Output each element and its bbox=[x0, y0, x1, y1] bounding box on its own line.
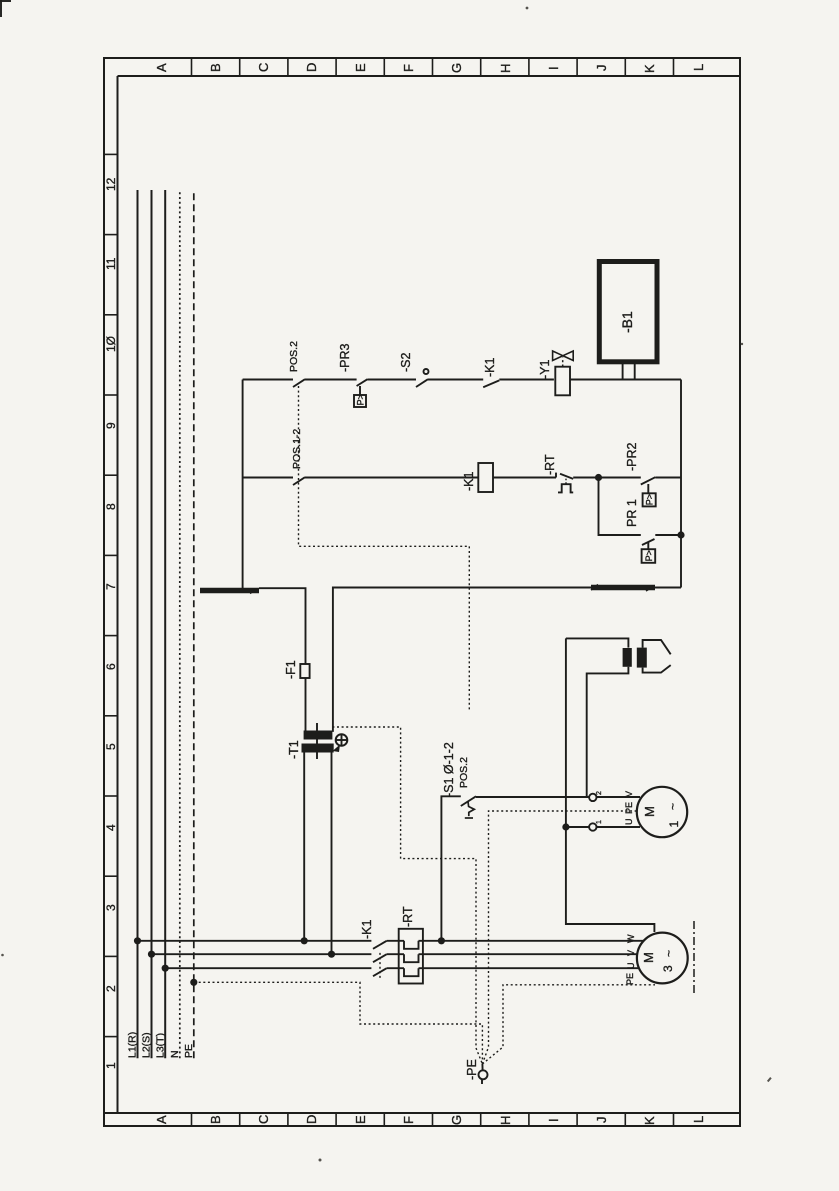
svg-text:J: J bbox=[594, 65, 609, 72]
svg-text:-B1: -B1 bbox=[619, 311, 635, 333]
wire T1 secondary lower bbox=[333, 588, 591, 732]
svg-text:U: U bbox=[626, 963, 636, 970]
wire phase2 mid bbox=[387, 953, 404, 955]
wire net U (to M2 star point) bbox=[566, 638, 655, 932]
svg-text:8: 8 bbox=[104, 503, 118, 510]
svg-text:-K1: -K1 bbox=[483, 358, 497, 378]
svg-text:~: ~ bbox=[666, 803, 680, 810]
motor M1 circle bbox=[637, 787, 687, 837]
svg-text:M: M bbox=[641, 952, 656, 963]
branch2 wire bbox=[573, 477, 641, 479]
svg-text:G: G bbox=[449, 1115, 464, 1125]
control top rail bbox=[242, 380, 244, 589]
contact POS.1-2 bbox=[293, 477, 305, 485]
PE tail tick bbox=[481, 1080, 483, 1085]
rail L3 bbox=[164, 190, 166, 1058]
svg-text:M: M bbox=[642, 806, 657, 817]
wire to S1 bbox=[441, 796, 460, 941]
svg-text:A: A bbox=[154, 63, 169, 72]
branch2 wire bottom bbox=[655, 477, 681, 479]
svg-text:I: I bbox=[546, 1118, 561, 1122]
rail L1 bbox=[137, 190, 139, 1058]
contactor K1 main contacts bbox=[373, 941, 387, 978]
contact K1 aux bbox=[483, 380, 499, 387]
node S1 tap bbox=[438, 937, 445, 944]
PR2 pressure box bbox=[643, 484, 656, 506]
svg-text:PE: PE bbox=[183, 1044, 195, 1058]
branch2 wire bbox=[493, 477, 556, 479]
switch S1 contact bbox=[461, 796, 476, 806]
svg-text:V: V bbox=[626, 950, 636, 956]
svg-text:PE: PE bbox=[625, 973, 635, 985]
branch2 wire top bbox=[243, 477, 293, 479]
svg-text:9: 9 bbox=[104, 422, 118, 429]
RT heater phase3 bbox=[404, 968, 419, 976]
contact PR3 bbox=[357, 379, 368, 386]
svg-text:H: H bbox=[498, 64, 513, 73]
svg-text:5: 5 bbox=[104, 743, 118, 750]
wire phase3 lower bbox=[419, 967, 640, 969]
branch1 wire bbox=[428, 379, 483, 381]
node L1 tap bbox=[134, 937, 141, 944]
svg-text:W: W bbox=[626, 934, 636, 943]
svg-text:K: K bbox=[642, 64, 657, 73]
transformer T1 primary wire a bbox=[303, 752, 305, 941]
wire phase2 lower bbox=[419, 953, 638, 955]
node L3 tap bbox=[162, 965, 169, 972]
rail PE (dashed) bbox=[193, 190, 195, 1058]
contact POS.2 bbox=[293, 379, 305, 387]
M1 terminal labels bbox=[624, 791, 634, 825]
svg-text:-T1: -T1 bbox=[287, 740, 301, 759]
PR1 branch wire bottom bbox=[655, 534, 681, 536]
svg-text:3: 3 bbox=[661, 965, 675, 972]
svg-text:L1(R): L1(R) bbox=[127, 1032, 139, 1058]
svg-text:-K1: -K1 bbox=[360, 920, 374, 940]
corner scan mark bbox=[0, 0, 11, 17]
svg-text:POS.2: POS.2 bbox=[288, 341, 300, 372]
svg-text:D: D bbox=[304, 1115, 319, 1124]
branch1 wire top bbox=[243, 379, 293, 381]
svg-text:6: 6 bbox=[104, 663, 118, 670]
svg-text:L3(T): L3(T) bbox=[155, 1033, 167, 1058]
capacitor C1 plate1 bbox=[623, 648, 632, 667]
svg-text:-RT: -RT bbox=[401, 906, 415, 927]
branch1 wire bottom bbox=[570, 379, 681, 381]
node T1 tap b bbox=[328, 951, 335, 958]
branch2 wire bbox=[305, 477, 478, 479]
svg-text:L: L bbox=[691, 1116, 706, 1123]
svg-text:N: N bbox=[169, 1050, 181, 1058]
rail L2 bbox=[151, 190, 153, 1058]
T1 axis stubs bbox=[316, 723, 318, 759]
svg-text:-PR3: -PR3 bbox=[338, 343, 352, 372]
svg-text:7: 7 bbox=[104, 583, 118, 590]
node PR1 split bbox=[595, 474, 602, 481]
PR1 branch wire bbox=[599, 478, 641, 536]
svg-text:P>: P> bbox=[644, 550, 654, 561]
transformer T1 primary wire b bbox=[331, 752, 333, 955]
contact PR1 bbox=[642, 539, 655, 545]
T1 screen earth symbol bbox=[333, 734, 348, 752]
svg-text:-PR2: -PR2 bbox=[625, 442, 639, 471]
capacitor C1 plate2 bbox=[637, 648, 647, 668]
RT heater phase1 bbox=[404, 941, 419, 949]
node PE tap bbox=[190, 979, 197, 986]
PE link rail (dotted) bbox=[194, 982, 483, 1064]
svg-text:-S1 Ø-1-2: -S1 Ø-1-2 bbox=[442, 742, 456, 797]
transformer T1 primary bar bbox=[302, 744, 334, 753]
svg-text:-Y1: -Y1 bbox=[538, 360, 552, 380]
wire phase1 lower bbox=[419, 940, 644, 942]
motor M2 circle bbox=[637, 933, 688, 984]
wire fuse to supply bar bbox=[259, 588, 306, 664]
control return bar (thick) bbox=[591, 585, 655, 591]
wire phase3 mid bbox=[387, 967, 404, 969]
svg-text:J: J bbox=[594, 1117, 609, 1124]
svg-text:~: ~ bbox=[662, 950, 676, 957]
switch S2 contact bbox=[416, 379, 428, 387]
linkage S1 to POS contacts (dotted) bbox=[299, 386, 470, 712]
branch1 wire bbox=[305, 379, 357, 381]
rail N (dotted) bbox=[179, 190, 181, 1058]
node L2 tap bbox=[148, 951, 155, 958]
solenoid coil Y1 bbox=[555, 367, 570, 396]
svg-text:PR 1: PR 1 bbox=[625, 499, 639, 527]
svg-text:F: F bbox=[401, 64, 416, 72]
svg-text:I: I bbox=[546, 66, 561, 70]
svg-text:2: 2 bbox=[104, 985, 118, 992]
wire phase2 drop upper bbox=[152, 953, 372, 955]
svg-text:1: 1 bbox=[596, 820, 603, 824]
control supply bar (thick) bbox=[200, 588, 259, 594]
PR3 pressure box bbox=[354, 386, 366, 407]
svg-text:E: E bbox=[353, 63, 368, 72]
wire phase1 drop upper bbox=[138, 940, 372, 942]
control bottom rail bbox=[680, 380, 682, 588]
wire S1 to M1 bbox=[476, 796, 640, 798]
svg-text:POS.1-2: POS.1-2 bbox=[291, 429, 303, 469]
B1 pin1 bbox=[622, 360, 624, 380]
svg-text:B: B bbox=[208, 1115, 223, 1124]
contact RT (NC) bbox=[556, 473, 573, 479]
unit B1 box bbox=[599, 262, 657, 362]
PE link M1 (dotted) bbox=[482, 811, 637, 1064]
svg-text:D: D bbox=[304, 63, 319, 72]
transformer T1 secondary bar bbox=[304, 731, 333, 740]
capacitor lead B bbox=[587, 667, 629, 798]
svg-text:-S2: -S2 bbox=[399, 353, 413, 373]
RT thermal element symbol bbox=[558, 479, 573, 493]
coil K1 bbox=[478, 463, 493, 492]
motor M2 text bbox=[641, 950, 676, 972]
svg-text:L2(S): L2(S) bbox=[141, 1032, 153, 1058]
svg-text:E: E bbox=[353, 1115, 368, 1124]
wire M1-U bbox=[566, 826, 640, 828]
node T1 tap a bbox=[301, 937, 308, 944]
svg-text:B: B bbox=[208, 63, 223, 72]
thermal relay RT block bbox=[399, 929, 423, 984]
motor M1 text bbox=[642, 803, 681, 828]
svg-text:11: 11 bbox=[104, 257, 118, 270]
svg-text:4: 4 bbox=[104, 824, 118, 831]
svg-text:1: 1 bbox=[667, 821, 681, 828]
svg-text:K: K bbox=[642, 1116, 657, 1125]
PE link M2 (dotted) bbox=[482, 985, 655, 1064]
valve symbol Y1 bbox=[553, 351, 574, 367]
fuse F1 bbox=[300, 664, 309, 678]
node M1-U tee bbox=[562, 823, 569, 830]
S1 detent spring bbox=[468, 802, 474, 817]
svg-text:F: F bbox=[401, 1116, 416, 1124]
PE link T1 screen (dotted) bbox=[332, 727, 482, 1064]
svg-text:1Ø: 1Ø bbox=[104, 336, 118, 352]
connector plug M1-V bbox=[589, 794, 596, 801]
S2 position circle bbox=[424, 369, 429, 374]
B1 pin2 bbox=[634, 360, 636, 380]
capacitor case outline bbox=[643, 640, 671, 673]
branch1 wire bbox=[499, 379, 554, 381]
svg-text:3: 3 bbox=[104, 904, 118, 911]
svg-text:-RT: -RT bbox=[543, 454, 557, 475]
svg-text:V: V bbox=[624, 791, 634, 797]
svg-text:P>: P> bbox=[645, 494, 655, 505]
svg-text:2: 2 bbox=[596, 791, 603, 795]
M2 terminal labels bbox=[625, 934, 636, 985]
capacitor lead A bbox=[566, 638, 629, 647]
control return lower bbox=[655, 587, 681, 589]
wire phase3 drop upper bbox=[165, 967, 371, 969]
PE star point circle bbox=[479, 1070, 488, 1079]
PR1 pressure box bbox=[642, 542, 656, 563]
branch1 wire bbox=[368, 379, 417, 381]
svg-text:U: U bbox=[624, 819, 634, 826]
svg-text:P>: P> bbox=[356, 394, 366, 405]
connector plug M1-U bbox=[589, 823, 596, 830]
svg-text:C: C bbox=[256, 63, 271, 72]
wire T1 secondary to fuse bbox=[305, 678, 307, 732]
svg-text:L: L bbox=[691, 64, 706, 71]
svg-text:PE: PE bbox=[624, 802, 634, 814]
svg-text:12: 12 bbox=[104, 177, 118, 191]
svg-text:H: H bbox=[498, 1116, 513, 1125]
svg-text:-F1: -F1 bbox=[284, 660, 298, 679]
svg-text:G: G bbox=[449, 63, 464, 73]
wire phase1 mid bbox=[387, 940, 404, 942]
unit boundary dash-dot bbox=[693, 920, 695, 993]
svg-text:POS.2: POS.2 bbox=[458, 757, 470, 788]
svg-text:C: C bbox=[256, 1115, 271, 1124]
svg-text:-K1: -K1 bbox=[462, 472, 476, 492]
PE star stub bbox=[481, 1064, 483, 1070]
contact PR2 bbox=[641, 477, 656, 484]
svg-text:-PE: -PE bbox=[465, 1059, 479, 1080]
RT heater phase2 bbox=[404, 954, 419, 962]
svg-text:A: A bbox=[154, 1115, 169, 1124]
svg-text:1: 1 bbox=[104, 1062, 118, 1069]
node PR1 rail bbox=[677, 531, 684, 538]
